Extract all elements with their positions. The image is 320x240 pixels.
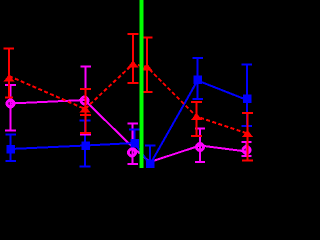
magenta errorbar M3 (132, 124, 134, 165)
magenta data line (11, 100, 247, 162)
red errorbar P5 (196, 102, 198, 136)
magenta errorbar M5 (199, 129, 201, 163)
blue square markers (6, 76, 251, 168)
magenta errorbar M2 (85, 67, 87, 135)
blue errorbar B1 (10, 135, 12, 162)
blue errorbar B6 (246, 65, 248, 127)
magenta errorbar M6 (246, 142, 248, 156)
magenta errorbar M2 bottom cap (drawn above blue) (80, 134, 91, 136)
red dashed data line (9, 64, 248, 134)
red errorbar P4 (146, 38, 148, 93)
red triangle markers (4, 61, 254, 138)
blue errorbar B3 (134, 130, 136, 148)
blue errorbar B4 (149, 146, 151, 169)
magenta ring markers (7, 97, 250, 156)
blue errorbar B5 (197, 58, 199, 99)
blue data line (11, 81, 248, 165)
red errorbar P3 (132, 34, 134, 83)
magenta errorbar M1 (10, 85, 12, 131)
blue errorbar B2 (84, 121, 86, 167)
red errorbar P1 (8, 49, 10, 98)
red errorbar P6 (247, 113, 249, 161)
red errorbar P2 (85, 89, 87, 133)
